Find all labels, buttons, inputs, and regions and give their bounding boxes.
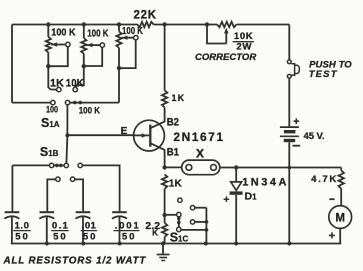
svg-text:CORRECTOR: CORRECTOR (195, 52, 256, 63)
wire contact to C3 (75, 179, 83, 211)
svg-text:50: 50 (83, 232, 96, 243)
svg-text:50: 50 (15, 232, 28, 243)
wire switch to battery (288, 78, 290, 126)
resistor 2.2K (162, 223, 167, 237)
wire battery to bottom rail (288, 142, 290, 243)
terminal circle R2 wiper (100, 43, 104, 47)
wire S1C upper contact to bus (195, 207, 207, 209)
node dot R1 bottom (46, 64, 50, 68)
wire emitter node to transistor (67, 134, 133, 136)
switch S1B pivot (64, 163, 68, 167)
resistor 1K lower (162, 174, 167, 188)
node dot B1/X junction (162, 165, 166, 169)
base-one lead (150, 143, 164, 167)
socket X outline (182, 160, 220, 175)
potentiometer 10K 2W corrector (217, 22, 236, 27)
node junction dots on top rail (46, 22, 50, 26)
resistor 22K (horizontal, in top rail) (137, 22, 153, 27)
node dot R2 bottom (82, 64, 86, 68)
svg-text:X: X (196, 147, 204, 161)
svg-text:50: 50 (122, 232, 135, 243)
svg-text:100 K: 100 K (79, 105, 100, 116)
contact circle S1B left (49, 163, 53, 167)
socket X pin left (186, 165, 192, 171)
switch S1B arm (54, 164, 64, 166)
wire S1A pivot down to emitter node (66, 105, 68, 135)
svg-text:B1: B1 (167, 147, 179, 159)
node dot R3 bottom (117, 66, 121, 70)
contact circle 100 (S1A) (51, 100, 55, 104)
battery polarity + (294, 118, 300, 124)
potentiometer R2 100K (middle) (83, 25, 85, 39)
svg-text:2N1671: 2N1671 (173, 130, 223, 144)
svg-text:10K: 10K (66, 78, 84, 90)
corrector wiper (225, 33, 227, 44)
svg-text:1K: 1K (169, 179, 183, 190)
svg-text:1K: 1K (50, 78, 64, 90)
svg-text:100 K: 100 K (51, 27, 76, 39)
contact circle S1B right (78, 163, 82, 167)
wire S1C bottom contact to bus (181, 229, 206, 231)
battery polarity - (293, 145, 301, 147)
wire B1 node to socket (165, 166, 182, 168)
wire S1C mid contact to bus (195, 221, 207, 223)
svg-text:45 V.: 45 V. (304, 131, 325, 142)
wire S1B left lead (12, 165, 49, 211)
contact circle 10K (73, 87, 77, 91)
capacitor C2 0.1uF (40, 211, 55, 213)
switch S1A arm to 100K wire (70, 102, 119, 104)
svg-text:ALL RESISTORS 1/2 WATT: ALL RESISTORS 1/2 WATT (3, 256, 147, 267)
resistor 1K at B2 (162, 90, 167, 107)
wire S1C bus (205, 208, 207, 244)
wire top supply rail (12, 25, 289, 103)
switch S1A pivot (65, 100, 69, 104)
terminal circle R3 wiper (134, 36, 138, 40)
base-two lead (150, 107, 164, 128)
meter polarity + (329, 232, 335, 238)
wire node to S1C pivot (165, 214, 177, 216)
node dot diode tap (234, 165, 238, 169)
meter polarity - (329, 198, 334, 200)
diode polarity + (224, 196, 230, 202)
potentiometer R3 100K (right) (118, 25, 120, 32)
diode D1 1N34A (235, 168, 237, 182)
svg-text:100: 100 (46, 104, 58, 115)
wire contact to C2 (47, 179, 55, 211)
svg-text:4.7K: 4.7K (311, 174, 336, 185)
svg-text:1K: 1K (172, 93, 185, 103)
meter M1 (329, 206, 352, 229)
contact circle S1C open (178, 198, 182, 202)
capacitor C1 1.0uF (5, 211, 20, 213)
contact circle S1C mid-right (190, 220, 194, 224)
wire bottom rail (11, 243, 341, 245)
wire socket X to battery branch (220, 167, 341, 169)
contact circle S1C upper-right (190, 206, 194, 210)
contact circle S1C bottom (177, 227, 181, 231)
transistor base bar (149, 125, 151, 147)
terminal circle R1 wiper (66, 42, 70, 46)
svg-text:K: K (152, 228, 158, 237)
svg-text:22K: 22K (134, 10, 157, 22)
node dot emitter tee (65, 133, 69, 137)
potentiometer R1 100K (left) (47, 25, 49, 37)
svg-text:M: M (335, 212, 345, 224)
transistor Q1 2N1671 body (134, 120, 165, 151)
svg-text:100 K: 100 K (122, 25, 143, 37)
wiper arm R2 (87, 44, 101, 46)
svg-text:100 K: 100 K (87, 29, 109, 40)
svg-text:D1: D1 (245, 191, 258, 203)
svg-text:50: 50 (53, 232, 66, 243)
svg-text:10K: 10K (234, 31, 253, 42)
ground (162, 244, 164, 254)
wire meter to bottom rail (339, 228, 341, 243)
wiper arm R1 (51, 44, 66, 46)
svg-text:E: E (121, 126, 128, 137)
switch push-to-test (287, 60, 291, 64)
capacitor C3 .01uF (76, 211, 91, 213)
switch S1C pivot (177, 212, 181, 216)
contact circle 1K (57, 87, 61, 91)
node dot 2.2K top (162, 213, 166, 217)
node dots on bottom rail (45, 242, 49, 246)
resistor 4.7K (340, 168, 342, 171)
switch S1C arm (178, 217, 180, 228)
wiper arm R3 (122, 37, 134, 39)
contact circle S1B lower-right (70, 177, 74, 181)
wire emitter node down to S1B (66, 135, 67, 163)
contact circle S1B lower-left (56, 177, 60, 181)
emitter arrow (134, 134, 150, 136)
wire S1B right to C4 (82, 165, 119, 211)
svg-text:TEST: TEST (309, 69, 338, 80)
battery B1 45V (280, 126, 299, 128)
capacitor C4 .001uF (112, 211, 127, 213)
node dot battery cross (288, 166, 292, 170)
socket X pin right (211, 165, 217, 171)
svg-text:B2: B2 (167, 116, 179, 128)
wire S1A left lead (12, 102, 51, 104)
